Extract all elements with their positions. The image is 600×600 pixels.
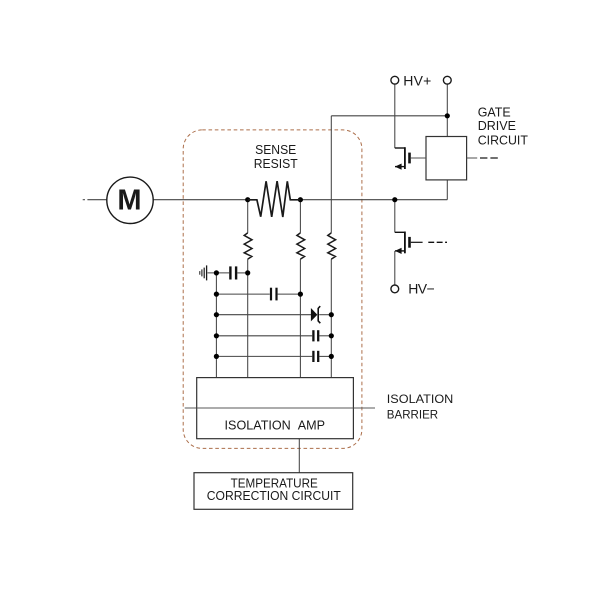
svg-text:HV−: HV− [408,280,435,296]
svg-text:ISOLATION: ISOLATION [387,392,454,406]
svg-text:CORRECTION CIRCUIT: CORRECTION CIRCUIT [207,488,341,503]
svg-text:RESIST: RESIST [254,157,298,171]
svg-text:CIRCUIT: CIRCUIT [478,133,528,147]
svg-text:BARRIER: BARRIER [387,407,439,421]
svg-text:ISOLATION AMP: ISOLATION AMP [225,418,326,432]
svg-text:HV+: HV+ [403,72,431,88]
svg-text:GATE: GATE [478,105,511,119]
svg-text:DRIVE: DRIVE [478,119,516,133]
svg-text:M: M [117,185,141,217]
svg-text:SENSE: SENSE [255,143,296,157]
